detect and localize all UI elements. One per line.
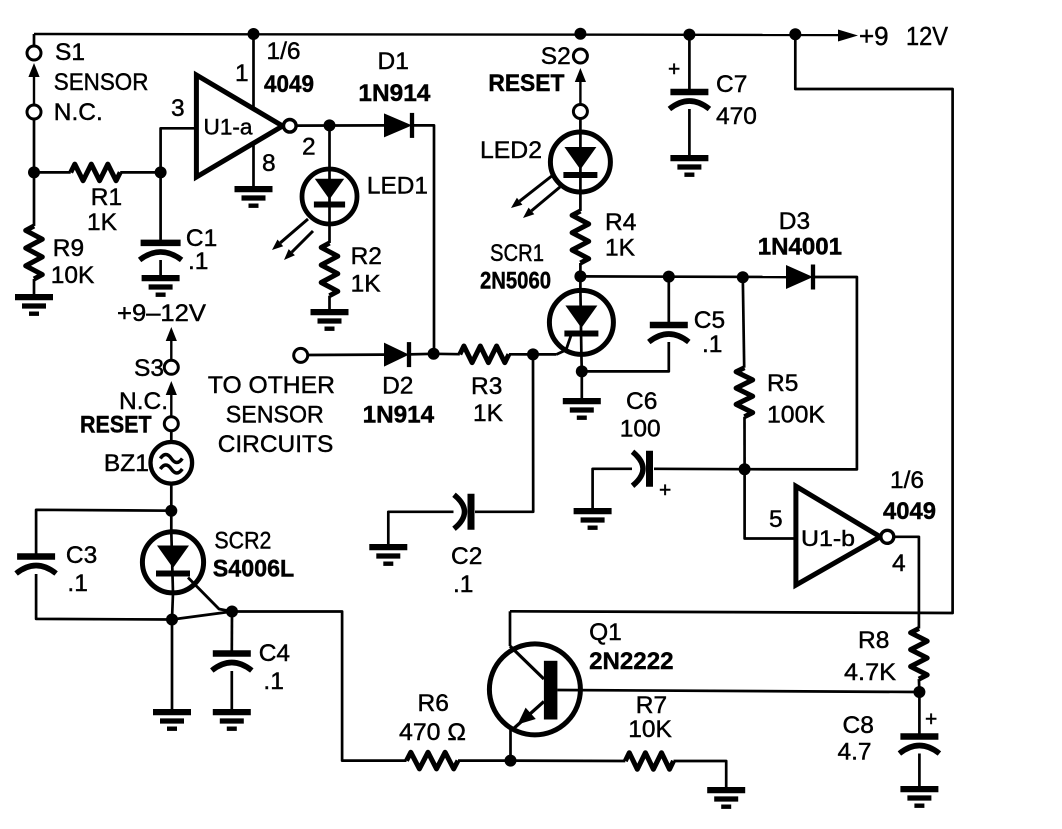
svg-text:1/6: 1/6	[890, 467, 924, 494]
svg-text:TO OTHER: TO OTHER	[208, 372, 335, 399]
svg-text:100: 100	[620, 416, 661, 443]
wire R5 bottom lead	[743, 417, 746, 470]
ground C1	[142, 275, 180, 281]
switch S2 terminal top	[573, 49, 587, 63]
wire C4 top lead	[230, 612, 233, 652]
svg-text:S4006L: S4006L	[213, 556, 294, 583]
capacitor C3	[17, 553, 55, 560]
wire R8 bottom lead	[918, 679, 921, 692]
wire Q1 emitter	[509, 727, 512, 760]
wire gate line to bottom	[232, 612, 407, 761]
svg-text:R7: R7	[636, 692, 667, 719]
svg-text:2: 2	[302, 134, 316, 161]
buzzer BZ1 symbol	[160, 455, 182, 463]
wire R6 to emitter node	[458, 759, 511, 762]
node D1/D2/R3 junction	[428, 348, 440, 360]
svg-text:2N2222: 2N2222	[589, 648, 673, 675]
wire BZ1 to SCR2 anode node	[170, 484, 173, 511]
wire C2 junction drop	[475, 354, 533, 511]
transistor Q1 circle	[489, 644, 580, 735]
wire C5 bottom lead	[582, 342, 669, 371]
LED2 light arrow 2	[531, 187, 560, 211]
svg-text:D3: D3	[779, 208, 810, 235]
svg-text:1N914: 1N914	[358, 80, 430, 107]
power arrow +9/12V	[838, 30, 858, 42]
ground C4	[213, 709, 251, 715]
node rail junction C7	[683, 29, 695, 41]
wire C1 bottom lead	[159, 260, 162, 276]
wire D1 cathode to corner	[412, 125, 434, 353]
SCR SCR2 wire through	[171, 532, 173, 593]
svg-text:3: 3	[171, 95, 185, 122]
wire SCR2 anode	[170, 511, 173, 532]
wire U1-b output to R8	[894, 537, 919, 629]
svg-text:D1: D1	[378, 48, 409, 75]
svg-text:12V: 12V	[906, 21, 949, 51]
svg-text:5: 5	[769, 506, 783, 533]
svg-text:SCR1: SCR1	[490, 240, 544, 267]
node R5 / D3 junction	[737, 271, 749, 283]
switch S3 arrow	[166, 381, 177, 395]
svg-text:C7: C7	[716, 71, 747, 98]
wire R4 bottom lead	[579, 263, 582, 276]
svg-text:1K: 1K	[473, 400, 504, 427]
ground C2	[369, 544, 407, 550]
wire C7 bottom lead	[688, 109, 691, 156]
resistor R2	[321, 243, 338, 296]
svg-text:R1: R1	[91, 184, 122, 211]
svg-text:U1-b: U1-b	[801, 526, 855, 551]
ground C8	[900, 786, 938, 792]
wire U1-a pin3 input	[161, 128, 197, 172]
svg-text:C8: C8	[843, 712, 874, 739]
diode D1 1N914	[384, 113, 412, 137]
resistor R3	[460, 346, 509, 363]
node R5 bottom / pin5	[739, 463, 751, 475]
svg-text:1K: 1K	[605, 235, 636, 262]
svg-text:+9: +9	[859, 21, 889, 51]
node SCR1 cathode	[576, 365, 588, 377]
node SCR2 anode / C3	[165, 505, 177, 517]
svg-text:2N5060: 2N5060	[480, 268, 551, 295]
svg-text:C5: C5	[694, 307, 725, 334]
svg-text:4.7K: 4.7K	[844, 659, 897, 686]
node LED1 branch	[324, 119, 336, 131]
ground C7	[670, 155, 708, 161]
svg-text:R2: R2	[351, 243, 382, 270]
svg-text:R4: R4	[605, 209, 636, 236]
wire Q1 collector	[509, 611, 512, 646]
capacitor C7	[670, 89, 708, 96]
ground SCR2	[153, 709, 191, 715]
capacitor C4	[213, 650, 251, 657]
capacitor C2	[468, 494, 475, 530]
switch S3 terminal top	[164, 360, 178, 374]
wire R3 left lead	[434, 352, 460, 355]
wire R2 bottom lead	[328, 296, 331, 310]
wire SCR1 cathode	[580, 355, 583, 371]
svg-text:.1: .1	[188, 248, 208, 275]
wire U1-a output	[296, 124, 384, 127]
svg-text:1: 1	[235, 60, 249, 87]
node SCR2 gate / C4	[226, 606, 238, 618]
U1-a output bubble	[284, 120, 297, 133]
wire gate node segment	[172, 612, 232, 620]
terminal to other sensor circuits	[294, 348, 308, 362]
SCR SCR2 circle	[142, 532, 203, 593]
svg-text:SENSOR: SENSOR	[54, 69, 149, 96]
node C5 top	[663, 271, 675, 283]
switch S2 arrow	[575, 68, 586, 82]
svg-text:.1: .1	[702, 331, 722, 358]
svg-text:.1: .1	[67, 570, 87, 597]
wire S1 top stub	[33, 34, 36, 46]
diode D3 1N4001	[786, 265, 813, 289]
U1-b output bubble	[881, 530, 894, 543]
svg-text:+9–12V: +9–12V	[117, 300, 207, 327]
wire D2 anode lead	[308, 353, 384, 356]
switch S1 arrow	[28, 63, 39, 77]
wire R9 bottom lead	[33, 279, 36, 295]
svg-text:10K: 10K	[51, 262, 95, 289]
op-amp U1-b inverter 1/6 4049	[796, 486, 880, 585]
capacitor C5	[650, 322, 688, 329]
svg-text:D2: D2	[382, 373, 413, 400]
svg-text:R8: R8	[858, 627, 889, 654]
wire S3 to BZ1	[170, 431, 173, 443]
wire C7 top lead	[688, 35, 691, 89]
wire C5 top lead	[667, 277, 670, 322]
wire C6 right lead	[654, 467, 745, 470]
wire top +9V rail	[34, 34, 852, 35]
wire R2 top lead	[328, 224, 331, 243]
LED2 light arrow 1	[520, 175, 553, 201]
SCR SCR1 circle	[549, 290, 613, 354]
switch S3 terminal bottom	[164, 417, 178, 431]
svg-text:+: +	[925, 708, 937, 731]
node rail junction right drop	[789, 28, 801, 40]
wire U1-b pin5 input	[745, 469, 796, 538]
wire C4 bottom lead	[230, 671, 233, 710]
LED LED2 diode symbol	[564, 147, 596, 170]
wire SCR2 cathode to ground	[171, 620, 174, 711]
resistor R1	[71, 164, 121, 181]
LED LED2 circle	[550, 132, 610, 192]
capacitor C8	[900, 733, 938, 740]
transistor Q1 base bar	[544, 661, 558, 720]
LED LED1 wire through	[328, 170, 331, 224]
wire LED1 top lead	[328, 125, 331, 170]
svg-text:4049: 4049	[883, 498, 936, 525]
ground R7	[707, 787, 745, 793]
svg-text:+: +	[659, 479, 671, 502]
svg-text:1N4001: 1N4001	[758, 234, 842, 261]
svg-text:1K: 1K	[87, 209, 118, 236]
svg-text:C6: C6	[626, 388, 657, 415]
switch S1 terminal bottom	[27, 105, 41, 119]
SCR SCR1 gate lead	[557, 334, 572, 354]
svg-text:C4: C4	[259, 640, 290, 667]
node SCR2 cathode / C3 bottom	[166, 614, 178, 626]
ground R9	[15, 294, 53, 300]
svg-text:Q1: Q1	[589, 619, 622, 646]
wire U1-a pin8 to ground	[252, 144, 255, 188]
wire +9 feed right drop	[510, 34, 953, 613]
wire R7 left lead	[511, 759, 626, 762]
svg-text:1/6: 1/6	[267, 38, 301, 65]
node R3 / C2 junction	[527, 348, 539, 360]
svg-text:C2: C2	[451, 543, 482, 570]
node Q1 emitter junction	[505, 755, 517, 767]
svg-text:1K: 1K	[351, 271, 382, 298]
svg-text:R9: R9	[53, 235, 84, 262]
svg-text:CIRCUITS: CIRCUITS	[218, 431, 334, 458]
svg-text:LED2: LED2	[480, 137, 542, 164]
node rail junction S2	[574, 28, 586, 40]
SCR SCR2 diode symbol	[157, 546, 189, 569]
svg-text:SENSOR: SENSOR	[226, 402, 324, 429]
SCR SCR2 gate lead	[188, 578, 232, 612]
node R1 left	[28, 166, 40, 178]
wire R3 right lead	[509, 353, 533, 356]
svg-text:470 Ω: 470 Ω	[399, 719, 466, 746]
LED LED1 circle	[302, 169, 357, 224]
svg-text:RESET: RESET	[488, 70, 564, 97]
node rail junction pin1	[248, 28, 260, 40]
wire C1 top lead	[159, 172, 162, 240]
svg-text:BZ1: BZ1	[104, 450, 149, 477]
wire R9 top lead	[33, 172, 36, 226]
svg-text:+: +	[668, 58, 680, 81]
wire S1 to R1 node	[33, 119, 36, 172]
svg-text:.1: .1	[453, 571, 473, 598]
LED LED2 wire through	[579, 134, 582, 192]
LED1 light arrow 1	[280, 219, 308, 243]
svg-text:C3: C3	[66, 542, 97, 569]
svg-text:100K: 100K	[767, 402, 826, 429]
LED1 light arrow 2	[292, 231, 313, 252]
diode D2 1N914	[384, 343, 409, 367]
wire R4 node to C5/D3 rail	[580, 275, 786, 278]
wire R1 right lead	[120, 171, 160, 174]
transistor Q1 collector line	[510, 646, 544, 679]
op-amp U1-a inverter 1/6 4049	[196, 75, 282, 177]
wire SCR1 cathode to ground	[580, 371, 583, 399]
svg-text:SCR2: SCR2	[214, 528, 271, 555]
wire SCR2 cathode	[172, 593, 173, 620]
svg-text:RESET: RESET	[80, 412, 152, 439]
wire C6 left lead	[593, 469, 632, 509]
wire R1 left lead	[34, 171, 71, 174]
node R4 / SCR1 anode	[574, 270, 586, 282]
label +9-12V S3 supply	[166, 327, 177, 341]
wire C3 top loop	[36, 510, 171, 554]
node R8 / C8 / base	[913, 686, 925, 698]
svg-text:470: 470	[716, 103, 757, 130]
buzzer BZ1 circle	[151, 442, 193, 484]
wire LED2 to R4	[579, 192, 582, 211]
svg-text:.1: .1	[263, 668, 283, 695]
svg-text:R6: R6	[418, 690, 449, 717]
wire R7 right lead to ground	[674, 761, 727, 788]
svg-text:S1: S1	[55, 39, 85, 66]
capacitor C6	[646, 451, 653, 487]
ground C6	[574, 508, 612, 514]
svg-text:U1-a: U1-a	[204, 115, 254, 140]
svg-text:S2: S2	[541, 43, 571, 70]
transistor Q1 emitter line with arrow	[512, 702, 544, 731]
resistor R6	[407, 752, 459, 769]
resistor R4	[572, 211, 589, 263]
SCR SCR1 diode symbol	[565, 306, 597, 329]
svg-text:1N914: 1N914	[363, 402, 435, 429]
wire S2 to LED2	[579, 118, 582, 134]
svg-text:4: 4	[892, 550, 906, 577]
wire R5 top lead	[743, 277, 744, 368]
ground R2	[311, 309, 349, 315]
resistor R8	[911, 629, 928, 680]
svg-text:R5: R5	[767, 370, 798, 397]
svg-text:4.7: 4.7	[838, 739, 872, 766]
node R1 right / C1 top	[155, 166, 167, 178]
svg-text:10K: 10K	[628, 716, 672, 743]
svg-text:S3: S3	[134, 355, 164, 382]
ground U1-a pin8	[235, 186, 273, 192]
wire C2 left lead	[388, 512, 453, 545]
LED LED1 diode symbol	[315, 179, 344, 200]
switch S2 terminal bottom	[573, 105, 587, 119]
capacitor C1	[141, 240, 181, 247]
wire R3 to SCR1 gate	[533, 353, 557, 356]
SCR SCR1 wire through	[580, 290, 581, 355]
svg-text:LED1: LED1	[367, 173, 428, 200]
wire C3 bottom loop	[36, 574, 172, 620]
resistor R7	[625, 753, 673, 770]
svg-text:8: 8	[262, 150, 276, 177]
svg-text:N.C.: N.C.	[54, 99, 103, 126]
ground SCR1	[563, 398, 601, 404]
wire Q1 base lead	[557, 690, 919, 692]
resistor R5	[736, 368, 753, 417]
wire D3 cathode loop	[745, 277, 857, 469]
wire C8 bottom lead	[918, 754, 921, 788]
svg-text:R3: R3	[471, 373, 502, 400]
wire C8 top lead	[918, 692, 921, 734]
wire SCR1 anode	[579, 276, 582, 290]
svg-text:4049: 4049	[264, 71, 314, 98]
wire D2 cathode lead	[409, 352, 434, 355]
wire U1-a pin1 from rail	[252, 34, 255, 109]
switch S1 terminal top	[27, 46, 41, 60]
resistor R9	[26, 226, 43, 279]
